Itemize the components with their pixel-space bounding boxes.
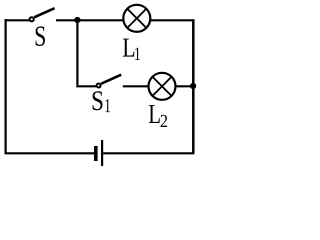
wire middle horizontal to switch S1 xyxy=(76,85,96,87)
wire left vertical xyxy=(4,19,6,153)
label L1 xyxy=(123,39,140,60)
node junction dot right xyxy=(190,83,196,89)
wire lamp L1 to right corner xyxy=(150,19,194,21)
battery B1 xyxy=(96,140,102,167)
lamp L2 xyxy=(149,73,176,100)
wire switch S1 to lamp L2 xyxy=(123,85,149,87)
switch S xyxy=(30,8,55,21)
label L2 xyxy=(149,105,167,127)
wire bottom-left horizontal to battery xyxy=(5,152,95,154)
switch S1 xyxy=(97,75,122,88)
wire middle branch vertical xyxy=(76,20,78,85)
wire lamp L2 to right junction xyxy=(175,85,193,87)
wire top-left horizontal to switch S xyxy=(5,19,30,21)
node junction dot top xyxy=(74,17,80,23)
wire switch S to lamp L1 xyxy=(56,19,123,21)
label S1 xyxy=(93,91,110,112)
lamp L1 xyxy=(123,5,150,32)
wire right vertical xyxy=(192,19,195,153)
wire battery to bottom-right corner xyxy=(103,152,194,154)
label S xyxy=(36,26,45,46)
